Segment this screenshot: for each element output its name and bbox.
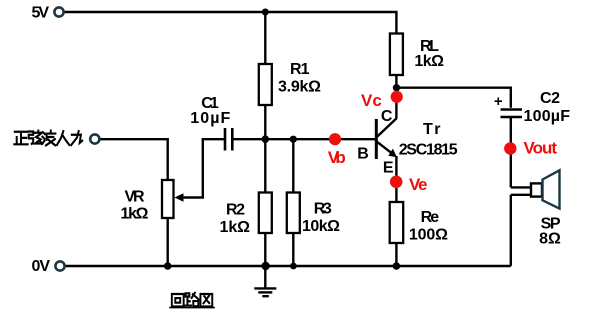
wire 0V bottom rail	[65, 265, 511, 267]
svg-text:Vc: Vc	[361, 91, 382, 110]
node Vc red dot	[391, 91, 403, 103]
terminal 0V	[55, 261, 64, 270]
wire VR bottom stem	[166, 218, 168, 266]
junction dot 0V / VR	[164, 262, 172, 270]
svg-text:R2: R2	[226, 202, 245, 219]
resistor R2	[259, 193, 272, 234]
svg-text:1kΩ: 1kΩ	[220, 219, 251, 236]
node Vout red dot	[504, 142, 516, 154]
potentiometer VR body	[162, 180, 174, 218]
wire RL bottom stem to collector node	[395, 75, 397, 88]
wire input lead to VR top	[100, 139, 168, 180]
svg-text:Vout: Vout	[524, 139, 558, 158]
svg-text:10µF: 10µF	[190, 110, 230, 127]
capacitor C1 plates	[225, 128, 232, 151]
svg-text:B: B	[357, 146, 369, 163]
svg-text:3.9kΩ: 3.9kΩ	[278, 79, 321, 96]
svg-text:2SC1815: 2SC1815	[399, 142, 458, 159]
svg-text:C2: C2	[540, 90, 560, 107]
svg-text:1kΩ: 1kΩ	[414, 53, 444, 70]
wire collector vertical	[395, 88, 397, 119]
wire collector node to C2	[396, 88, 510, 108]
svg-text:+: +	[494, 93, 503, 110]
wire R2 bottom stem	[264, 233, 266, 266]
wire 5V top rail	[64, 12, 397, 34]
terminal 5V	[54, 7, 63, 16]
wire R3 top stem	[292, 139, 294, 192]
label input text (sine wave input kanji)	[14, 131, 82, 146]
svg-text:1kΩ: 1kΩ	[121, 206, 149, 223]
junction dot base / R3	[290, 136, 297, 143]
wire R2 top stem	[264, 139, 266, 192]
node Vb red dot	[329, 133, 341, 145]
wire base net horizontal (C1 to transistor base)	[233, 138, 377, 140]
wire R1 top stem	[264, 12, 266, 64]
ground symbol	[254, 266, 276, 296]
svg-text:10kΩ: 10kΩ	[302, 218, 340, 235]
svg-text:R1: R1	[290, 61, 310, 78]
svg-text:0V: 0V	[32, 258, 51, 275]
wire R3 bottom stem	[292, 233, 294, 266]
wire speaker return to 0V rail	[510, 195, 512, 266]
resistor R3	[287, 193, 300, 234]
svg-text:100µF: 100µF	[524, 108, 571, 125]
junction dot base / R1R2	[262, 135, 270, 143]
svg-text:Re: Re	[421, 209, 440, 226]
wire C2 to speaker	[510, 118, 512, 187]
caption kanji (circuit diagram) underlined	[170, 293, 214, 308]
transistor Q1 emitter diagonal with arrow	[377, 142, 393, 155]
wire speaker upper stub	[511, 186, 531, 188]
node Ve red dot	[390, 176, 403, 189]
svg-text:VR: VR	[125, 189, 145, 206]
junction dot 0V / R2 ground	[261, 262, 269, 270]
wire R1 bottom stem to base net	[264, 105, 266, 139]
wire speaker lower stub	[511, 194, 531, 196]
transistor Q1 base bar	[375, 119, 378, 159]
svg-text:Ve: Ve	[409, 175, 428, 194]
svg-text:E: E	[383, 160, 394, 177]
svg-text:8Ω: 8Ω	[539, 231, 561, 248]
resistor Re	[390, 202, 404, 243]
svg-text:Vb: Vb	[328, 148, 346, 167]
wire C1 left lead	[181, 139, 224, 197]
junction dot 0V / R3	[290, 263, 297, 270]
svg-text:R3: R3	[314, 201, 332, 218]
potentiometer VR wiper arrow	[175, 193, 184, 202]
junction dot top rail / R1	[262, 9, 269, 16]
svg-text:5V: 5V	[32, 5, 50, 22]
junction dot collector node	[393, 84, 400, 91]
svg-text:C: C	[381, 108, 393, 125]
svg-text:Tr: Tr	[423, 121, 441, 138]
resistor R1	[259, 64, 272, 105]
resistor RL	[390, 34, 403, 76]
wire Re bottom stem	[395, 243, 397, 266]
speaker SP horn	[543, 170, 560, 208]
speaker SP box	[531, 183, 542, 196]
terminal input	[90, 134, 99, 143]
junction dot 0V / Re	[393, 262, 401, 270]
capacitor C2 plates	[501, 110, 523, 118]
transistor Q1 collector diagonal	[377, 118, 397, 137]
svg-text:100Ω: 100Ω	[409, 227, 448, 244]
wire emitter vertical to Re	[395, 156, 397, 202]
